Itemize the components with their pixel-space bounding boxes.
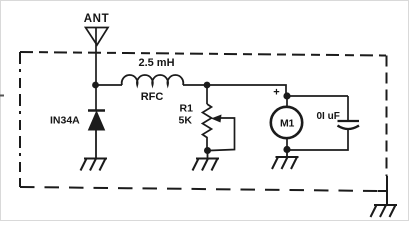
- svg-text:5K: 5K: [179, 115, 193, 127]
- svg-text:IN34A: IN34A: [50, 115, 80, 127]
- wire: diode to ground: [95, 130, 97, 158]
- shield enclosure dashed box: right edge: [386, 56, 388, 177]
- wire: meter to bottom junction: [286, 138, 288, 150]
- shield enclosure dashed box: bottom edge: [20, 187, 378, 191]
- node: R1 bottom junction: [204, 147, 211, 154]
- antenna ANT symbol: [86, 28, 109, 46]
- wire: down to capacitor: [347, 96, 349, 121]
- wire: ground stub at enclosure corner: [386, 191, 388, 205]
- shield enclosure dashed box: top edge: [20, 52, 386, 56]
- svg-text:+: +: [273, 87, 279, 99]
- diode D1 1N34A (cathode bar): [88, 109, 105, 111]
- svg-text:RFC: RFC: [141, 91, 164, 103]
- ground (diode): [81, 159, 108, 171]
- wire: capacitor to bottom run: [290, 129, 348, 150]
- wire: R1 junction to ground: [207, 151, 209, 159]
- node: antenna/diode junction: [92, 82, 99, 89]
- ground (R1): [193, 159, 220, 171]
- shield enclosure dashed box: left edge: [19, 52, 21, 187]
- svg-text:ANT: ANT: [84, 13, 109, 25]
- node: meter - junction: [283, 146, 290, 153]
- wire: junction to meter: [286, 96, 288, 107]
- svg-text:M1: M1: [280, 118, 294, 130]
- node: meter + junction: [283, 92, 290, 99]
- svg-text:2.5 mH: 2.5 mH: [138, 57, 174, 69]
- potentiometer wiper arrow: [211, 115, 222, 123]
- ground (meter): [272, 157, 299, 169]
- wire: antenna lead down to node: [95, 28, 97, 86]
- svg-text:R1: R1: [180, 103, 194, 115]
- wire: node to RFC: [96, 84, 122, 86]
- wire: node A down to R1: [206, 85, 208, 104]
- wire: wiper return to bottom terminal: [210, 118, 235, 151]
- inductor RFC 2.5 mH: [122, 75, 184, 85]
- ground (enclosure shield): [371, 205, 398, 217]
- node A: RFC/R1 junction: [204, 82, 211, 89]
- wire: meter junction to ground: [286, 150, 288, 158]
- wire: node A to meter branch: [207, 85, 286, 96]
- capacitor C1 .01 uF (top plate): [338, 120, 360, 122]
- scan artifact tick at left edge: [0, 95, 4, 97]
- svg-text:0I uF: 0I uF: [317, 111, 340, 122]
- meter M1 (circle): [271, 107, 302, 138]
- diode D1 1N34A (anode triangle): [89, 112, 105, 131]
- shield enclosure: solid bottom-right corner: [378, 176, 387, 191]
- wire: meter junction to capacitor top: [287, 95, 348, 97]
- resistor R1 5K (zigzag): [203, 104, 212, 151]
- wire: node to diode: [95, 85, 97, 110]
- wire: RFC to node A: [183, 84, 207, 86]
- capacitor C1 .01 uF (curved plate): [338, 126, 360, 130]
